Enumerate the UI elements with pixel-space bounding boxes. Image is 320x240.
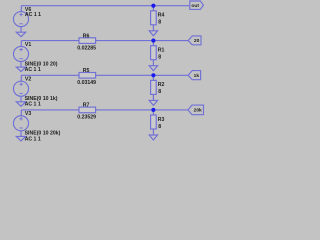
svg-text:20: 20	[194, 38, 200, 44]
wire net (row 2 left segment)	[21, 40, 79, 42]
wire drop to V1	[20, 41, 22, 47]
node junction row 4	[151, 108, 155, 112]
resistor R2	[152, 75, 154, 80]
ground (R4)	[149, 31, 157, 36]
svg-text:R1: R1	[158, 48, 165, 54]
svg-text:out: out	[191, 3, 199, 9]
svg-text:0.03149: 0.03149	[77, 80, 96, 86]
wire net out (row 1)	[21, 5, 190, 7]
svg-text:0.02285: 0.02285	[77, 45, 96, 51]
ground (V6)	[16, 32, 25, 37]
wire V1 to ground	[20, 61, 22, 67]
svg-text:20k: 20k	[194, 108, 202, 114]
ground (R1)	[149, 66, 157, 71]
svg-text:R6: R6	[83, 33, 90, 39]
svg-text:AC 1 1: AC 1 1	[25, 102, 41, 108]
svg-text:8: 8	[158, 89, 161, 95]
wire V2 to ground	[20, 96, 22, 102]
node junction row 3	[151, 73, 155, 77]
net flag 20k	[188, 105, 204, 115]
resistor R1	[152, 41, 154, 46]
ground (V2)	[16, 102, 25, 107]
svg-text:AC 1 1: AC 1 1	[25, 136, 41, 142]
voltage source V6	[13, 12, 28, 27]
wire drop to V3	[20, 110, 22, 116]
svg-text:R7: R7	[83, 103, 90, 109]
resistor R3	[152, 110, 154, 115]
svg-text:V1: V1	[25, 42, 31, 48]
svg-text:1k: 1k	[194, 73, 200, 79]
resistor R4	[152, 6, 154, 11]
svg-text:8: 8	[158, 124, 161, 130]
voltage source V2	[13, 81, 28, 96]
voltage source V3	[13, 116, 28, 131]
node junction row 1	[151, 4, 155, 8]
net flag 1k	[188, 71, 200, 80]
svg-text:V2: V2	[25, 77, 31, 83]
svg-text:R5: R5	[83, 68, 90, 74]
svg-text:AC 1 1: AC 1 1	[25, 12, 41, 18]
wire V3 to ground	[20, 131, 22, 137]
wire net (row 2 right segment)	[96, 40, 189, 42]
svg-text:R2: R2	[158, 82, 165, 88]
svg-text:8: 8	[158, 20, 161, 26]
net flag out	[190, 1, 204, 9]
svg-text:0.23529: 0.23529	[77, 115, 96, 121]
node junction row 2	[151, 39, 155, 43]
ground (V3)	[16, 136, 25, 141]
wire net (row 4 left segment)	[21, 109, 79, 111]
wire net (row 3 left segment)	[21, 74, 79, 76]
ground (R3)	[149, 135, 157, 140]
ground (R2)	[149, 100, 157, 105]
svg-text:R3: R3	[158, 117, 165, 123]
wire net (row 3 right segment)	[96, 74, 189, 76]
wire drop to V2	[20, 75, 22, 81]
resistor R6 body	[79, 38, 96, 44]
wire V6 to ground	[20, 27, 22, 33]
wire net (row 4 right segment)	[96, 109, 189, 111]
svg-text:AC 1 1: AC 1 1	[25, 67, 41, 73]
wire drop to V6	[20, 6, 22, 12]
svg-text:V3: V3	[25, 111, 31, 117]
voltage source V1	[13, 46, 28, 61]
resistor R7 body	[79, 107, 96, 113]
ground (V1)	[16, 67, 25, 72]
svg-text:8: 8	[158, 55, 161, 61]
svg-text:R4: R4	[158, 13, 165, 19]
net flag 20	[188, 36, 201, 45]
resistor R5 body	[79, 73, 96, 79]
